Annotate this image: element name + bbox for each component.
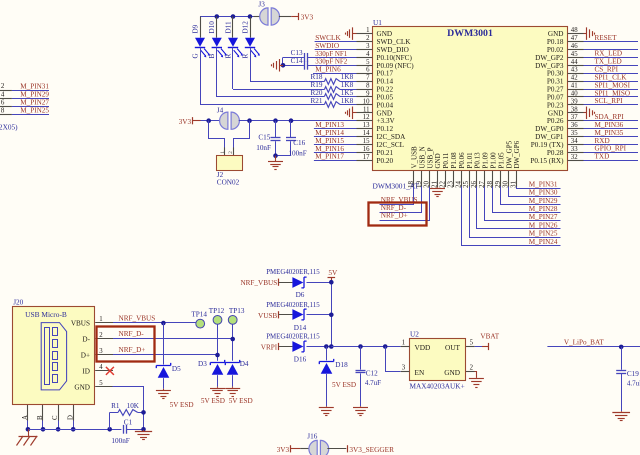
svg-text:CS_RPI: CS_RPI [595,66,619,74]
svg-text:P0.21: P0.21 [377,149,394,157]
svg-text:23: 23 [446,181,454,189]
wire net NRF_D+ usb [113,354,218,356]
U1 pin 17 P0.20 [357,154,394,165]
wire net TX_LED [584,65,639,67]
wire net M_PIN31 [517,187,561,189]
U1 pin 34 P0.19 (TX) [531,138,584,149]
wire C13 to C14 junction [282,57,284,65]
U1 pin 30 DW_GP5 [502,140,514,188]
wire 3V3 rail right [239,120,357,122]
svg-text:GND: GND [444,368,460,377]
svg-text:P0.22: P0.22 [377,86,394,94]
svg-text:B: B [37,415,44,420]
svg-text:VRPI: VRPI [261,344,278,352]
svg-text:D9: D9 [191,24,199,33]
TVS diode D3 [198,360,225,387]
U1 pin 36 DW_GP0 [535,122,583,133]
svg-text:R21: R21 [311,97,323,105]
svg-text:6: 6 [366,67,370,74]
U1 pin 16 P0.21 [357,146,394,157]
chassis ground [17,429,38,445]
svg-text:330pF NF1: 330pF NF1 [315,50,348,58]
junction [231,14,236,19]
svg-text:TP14: TP14 [191,311,207,319]
ic U2 MAX40203 body [410,330,466,391]
wire net SWDIO [315,49,357,51]
svg-text:14: 14 [363,130,370,137]
svg-text:5V ESD: 5V ESD [332,381,356,389]
U1 pin 11 GND [357,106,393,117]
svg-text:1K8: 1K8 [341,97,354,105]
svg-text:C14: C14 [291,57,303,65]
U1 pin 8 P0.22 [357,83,394,94]
header pin 6 stub [0,106,12,108]
wire net M_PIN13 [314,128,357,130]
svg-text:RXD: RXD [595,137,610,145]
svg-text:SPI1_CLK: SPI1_CLK [595,73,628,81]
svg-text:D18: D18 [335,361,348,369]
U1 pin 46 P0.02 [547,43,584,54]
power port 5V [328,268,338,282]
junction [141,427,146,432]
svg-text:P0.02: P0.02 [547,46,564,54]
U1 pin 19 USB_N [415,146,427,188]
svg-text:P0.28: P0.28 [547,149,564,157]
svg-text:PMEG4020ER,115: PMEG4020ER,115 [266,269,320,276]
wire shield A [27,421,29,430]
junction [215,353,220,358]
U2 pin 5 OUT [466,339,475,346]
svg-text:5V ESD: 5V ESD [201,397,225,405]
svg-text:2: 2 [228,151,234,154]
ground U1 pin 48 [584,27,595,39]
svg-text:P0.13: P0.13 [474,152,482,169]
svg-text:R19: R19 [311,81,323,89]
wire net M_PIN26 [477,187,561,229]
svg-text:P0.11: P0.11 [442,152,450,168]
ground U2 GND [469,372,484,388]
capacitor C19 4.7uF [616,347,640,411]
svg-text:M_PIN26: M_PIN26 [529,221,558,229]
svg-text:NRF_D-: NRF_D- [119,330,145,338]
svg-text:P1.01: P1.01 [466,152,474,169]
svg-text:(2X05): (2X05) [0,123,18,132]
svg-text:5: 5 [99,380,103,387]
U2 pin 1 VDD [401,339,410,346]
U1 pin 14 I2C_SDA [357,130,407,141]
svg-text:NRF_VBUS: NRF_VBUS [240,279,277,287]
ground C15 C16 [268,156,283,170]
svg-text:M_PIN36: M_PIN36 [595,121,624,129]
U1 pin 41 P0.27 [547,83,584,94]
U1 pin 27 P1.09 [478,152,490,188]
wire EN branch [386,347,401,372]
U1 pin 15 I2C_SCL [357,138,405,149]
ferrite bead J16 [300,433,346,455]
svg-text:OUT: OUT [445,343,461,352]
svg-text:M_PIN31: M_PIN31 [20,82,49,90]
svg-text:R: R [241,54,249,59]
wire LED 3V3 rail [200,16,254,18]
wire D11 cathode to resistor [232,48,234,90]
U1 pin 45 DW_GP2 [535,51,583,62]
wire net SCL_RPI [584,104,639,106]
wire net M_PIN25 [470,187,561,238]
svg-text:M_PIN25: M_PIN25 [529,230,558,238]
svg-text:M_PIN14: M_PIN14 [315,129,344,137]
svg-text:47: 47 [571,35,578,42]
junction [281,63,286,68]
svg-text:DW_GP0: DW_GP0 [535,125,564,133]
svg-text:16: 16 [363,146,370,153]
wire net NRF_D- usb [113,338,233,340]
U1 pin 35 DW_GP1 [535,130,583,141]
U1 pin 21 GND [431,153,443,188]
TVS diode D18 [319,347,348,407]
ground D5 [156,389,171,399]
svg-text:D-: D- [82,336,90,344]
svg-text:P0.20: P0.20 [377,157,394,165]
svg-text:U1: U1 [373,18,382,27]
U1 pin 18 V_USB [407,146,419,188]
wire net M_PIN29 [12,98,49,100]
op-amp U1 DWM3001 body [373,27,568,171]
svg-text:NRF_D+: NRF_D+ [381,212,408,220]
svg-text:5: 5 [470,339,474,346]
LED D10 [208,17,227,59]
svg-text:SCL_RPI: SCL_RPI [595,97,624,105]
power port 3V3 at J16 [277,445,301,454]
power port 3V3_SEGGER [348,445,395,454]
svg-text:33: 33 [571,146,578,153]
svg-text:1: 1 [99,316,102,323]
wire net M_PIN28 [493,187,561,213]
USB receptacle icon [41,323,66,390]
svg-text:P1.08: P1.08 [450,152,458,169]
svg-text:P0.06: P0.06 [458,152,466,169]
power port 3V3 top [291,13,313,22]
wire 5V vertical [331,282,333,346]
svg-text:B: B [208,54,216,59]
U1 pin 40 P0.07 [547,90,584,101]
wire D9 cathode to resistor [200,48,202,105]
resistor R19 1K8 [311,81,357,92]
U1 pin 1 GND [357,27,393,38]
capacitor C13 [283,49,357,62]
svg-text:5V: 5V [328,268,338,277]
wire net M_PIN31 [12,90,49,92]
ferrite bead J4 [217,106,240,129]
svg-text:J3: J3 [258,1,265,9]
U1 pin 13 P0.12 [357,122,394,133]
wire net M_PIN27 [12,106,49,108]
capacitor C1 100nF [111,418,143,445]
wire net P0.02 [584,49,639,51]
svg-text:12: 12 [363,114,370,121]
U1 pin 6 P0.17 [357,67,394,78]
svg-text:GND: GND [377,109,393,117]
svg-text:4.7uF: 4.7uF [365,379,381,387]
power port NRF_VBUS [240,279,292,288]
wire net SPI1_MOSI [584,89,639,91]
svg-text:D: D [67,415,74,420]
svg-text:D16: D16 [294,356,307,364]
svg-text:M_PIN27: M_PIN27 [20,99,49,107]
wire net M_PIN24 [462,187,561,246]
junction [329,313,334,318]
svg-text:I2C_SCL: I2C_SCL [377,141,405,149]
svg-text:M_PIN15: M_PIN15 [315,137,344,145]
svg-text:5V ESD: 5V ESD [229,397,253,405]
wire net M_PIN35 [584,136,639,138]
svg-text:1: 1 [220,151,226,154]
svg-text:P0.14: P0.14 [377,78,394,86]
svg-text:DW_GP2: DW_GP2 [535,54,564,62]
svg-text:2: 2 [1,82,5,90]
svg-text:GND: GND [548,30,564,38]
svg-text:D6: D6 [296,291,305,299]
svg-text:VBUS: VBUS [71,320,90,328]
svg-text:43: 43 [571,67,578,74]
resistor R18 1K8 [311,73,357,84]
header pin 8 stub [0,114,12,116]
svg-text:USB_N: USB_N [418,146,426,168]
svg-text:37: 37 [571,114,578,121]
J20 shield pin D [67,405,74,421]
svg-text:P0.10(NFC): P0.10(NFC) [377,54,413,62]
capacitor C16 100nF [286,121,307,158]
svg-text:3: 3 [366,43,370,50]
svg-text:3: 3 [99,348,103,355]
svg-text:NRF_D+: NRF_D+ [119,346,146,354]
svg-text:C13: C13 [291,49,303,57]
svg-text:ID: ID [82,368,90,376]
wire net V_LiPo_BAT [547,346,640,348]
U1 pin 12 +3.3V [357,114,396,125]
U1 pin 5 P0.09 (NFC) [357,59,415,70]
ground D3 [210,387,225,397]
svg-text:D+: D+ [81,352,90,360]
ground C1 [135,430,152,440]
svg-text:6: 6 [1,98,5,106]
junction [161,321,166,326]
J20 shield pin C [52,405,59,421]
svg-text:D3: D3 [198,360,207,368]
junction [26,427,31,432]
junction [329,344,334,349]
resistor R21 1K8 [311,97,357,108]
svg-text:21: 21 [431,181,439,189]
test point TP13 [228,307,245,361]
svg-text:P0.30: P0.30 [547,70,564,78]
svg-text:22: 22 [439,181,447,189]
svg-text:1K8: 1K8 [341,73,354,81]
junction [230,337,235,342]
svg-text:TXD: TXD [595,153,610,161]
svg-text:2: 2 [366,35,370,42]
J20 pin 3 D+ [81,348,113,360]
svg-text:3V3: 3V3 [277,445,290,454]
U1 pin 20 USB_P [423,147,435,188]
junction [273,118,278,123]
diode D6 PMEG4020ER [266,269,320,299]
U1 pin 47 P0.18 [547,35,584,46]
U1 pin 43 P0.30 [547,67,584,78]
U1 pin 38 GND [548,106,584,117]
svg-text:A: A [22,415,29,420]
test point TP12 [209,307,225,361]
svg-text:1: 1 [402,339,405,346]
svg-text:RESET: RESET [595,34,618,42]
capacitor C12 4.7uF [356,347,382,407]
LED D11 [224,17,243,59]
junction [141,410,146,415]
junction [383,344,388,349]
wire USB GND to R1 C1 [113,387,144,430]
svg-text:10: 10 [363,98,370,105]
U1 pin 48 GND [548,27,584,38]
svg-text:GND: GND [434,153,442,168]
svg-text:DW_GP1: DW_GP1 [535,133,564,141]
svg-text:SWDIO: SWDIO [315,41,339,50]
J20 pin 5 GND [74,380,113,392]
svg-text:P0.07: P0.07 [547,93,564,101]
svg-text:D5: D5 [172,365,181,373]
J20 pin 4 ID [82,364,113,376]
U1 pin 37 P0.26 [547,114,584,125]
svg-text:4: 4 [99,364,103,371]
wire shield rail [28,429,121,431]
U1 pin 25 P1.01 [462,152,474,188]
svg-text:D12: D12 [241,21,249,34]
wire D12 cathode to resistor [250,48,252,82]
svg-text:35: 35 [571,130,578,137]
svg-text:P0.26: P0.26 [547,117,564,125]
svg-text:C12: C12 [366,369,378,377]
wire net RXD [584,144,639,146]
svg-text:USB_P: USB_P [426,147,434,168]
junction [329,280,334,285]
svg-text:M_PIN24: M_PIN24 [529,238,558,246]
svg-text:J20: J20 [13,297,23,306]
svg-text:100nF: 100nF [288,149,306,157]
svg-text:C1: C1 [124,418,133,426]
svg-text:100nF: 100nF [111,437,129,445]
power port 3V3 at J4 [179,117,201,126]
svg-text:1: 1 [366,27,369,34]
svg-text:I2C_SDA: I2C_SDA [377,133,407,141]
svg-text:1K5: 1K5 [341,89,354,97]
wire C15-C16 bottoms [276,155,292,157]
svg-text:NRF_D-: NRF_D- [381,204,407,212]
header pin 4 stub [0,98,12,100]
svg-text:17: 17 [363,154,370,161]
resistor R1 10K [110,402,144,429]
svg-text:DWM3001_AT: DWM3001_AT [373,182,420,191]
svg-text:15: 15 [363,138,370,145]
svg-text:VUSB: VUSB [258,312,277,320]
svg-text:SPI1_MISO: SPI1_MISO [595,89,631,97]
svg-text:P1.09: P1.09 [482,152,490,169]
svg-text:41: 41 [571,83,578,90]
svg-text:+3.3V: +3.3V [377,117,396,125]
svg-text:P0.27: P0.27 [547,86,564,94]
ground U1 pin 11 [346,107,357,120]
wire net NRF_VBUS [380,187,414,205]
ground U1 pin 1 [346,27,357,39]
svg-text:C19: C19 [627,370,639,378]
U1 pin 26 P0.13 [470,152,482,188]
svg-text:SWD_CLK: SWD_CLK [377,38,412,46]
header pin 2 stub [0,90,12,92]
svg-text:4.7uF: 4.7uF [627,379,640,387]
svg-text:GND: GND [74,384,90,392]
ground C19 [612,411,630,420]
U1 pin 22 P0.11 [439,152,451,188]
wire net M_PIN29 [501,187,561,205]
wire net M_PIN16 [314,152,357,154]
wire 5V row to U2 [331,346,400,348]
wire net M_PIN15 [314,144,357,146]
junction [71,427,76,432]
U1 pin 9 P0.05 [357,90,394,101]
svg-text:3V3: 3V3 [179,117,192,126]
svg-text:8: 8 [1,107,5,115]
svg-text:P0.09 (NFC): P0.09 (NFC) [377,62,415,70]
svg-text:TX_LED: TX_LED [595,58,622,66]
capacitor C14 [283,57,357,70]
wire J2 right leg [234,121,250,148]
test point TP14 [191,311,207,328]
junction [206,118,211,123]
junction [215,14,220,19]
wire net CS_RPI [584,73,639,75]
svg-text:P0.31: P0.31 [547,78,564,86]
svg-text:P0.05: P0.05 [377,93,394,101]
svg-text:M_PIN16: M_PIN16 [315,145,344,153]
svg-text:10K: 10K [127,402,140,410]
svg-text:P0.12: P0.12 [377,125,394,133]
svg-text:SWD_DIO: SWD_DIO [377,46,409,54]
U1 pin 4 P0.10(NFC) [357,51,413,62]
wire net RX_LED [584,57,639,59]
svg-text:C: C [52,415,59,420]
U1 pin 29 P1.05 [494,152,506,188]
junction [289,118,294,123]
wire net M_PIN14 [314,136,357,138]
U1 pin 3 SWD_DIO [357,43,409,54]
svg-text:RX_LED: RX_LED [595,50,623,58]
svg-text:P0.15 (RX): P0.15 (RX) [530,157,564,165]
svg-text:7: 7 [366,75,370,82]
wire net SDA_RPI [584,120,639,122]
svg-text:2: 2 [99,332,103,339]
ground U1 pin 21 [430,187,445,196]
U1 pin 23 P1.08 [446,152,458,188]
junction [107,427,112,432]
svg-text:9: 9 [366,90,370,97]
U1 pin 33 P0.28 [547,146,584,157]
U1 pin 31 DW_GP6 [510,140,522,188]
svg-text:R: R [224,54,232,59]
wire net SWCLK [315,41,357,43]
junction [273,153,278,158]
wire net NRF_D+ [380,187,430,221]
svg-text:G: G [191,53,199,58]
svg-text:GPIO_RPI: GPIO_RPI [595,145,627,153]
wire net RESET [584,41,639,43]
wire D16 cathode [307,346,332,348]
